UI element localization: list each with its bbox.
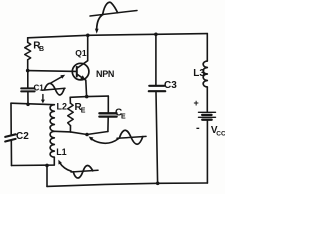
svg-text:B: B (39, 46, 44, 53)
svg-text:L1: L1 (56, 147, 67, 157)
svg-text:L3: L3 (193, 68, 205, 79)
svg-text:C2: C2 (16, 131, 29, 142)
svg-text:NPN: NPN (96, 69, 114, 79)
svg-text:L2: L2 (57, 102, 68, 112)
svg-text:E: E (121, 114, 126, 121)
svg-text:C3: C3 (164, 80, 177, 91)
svg-text:CC: CC (216, 131, 225, 138)
svg-text:C1: C1 (34, 84, 45, 93)
svg-text:+: + (194, 98, 199, 108)
svg-text:Q1: Q1 (75, 48, 87, 58)
svg-text:-: - (196, 122, 200, 134)
svg-text:E: E (81, 108, 86, 115)
